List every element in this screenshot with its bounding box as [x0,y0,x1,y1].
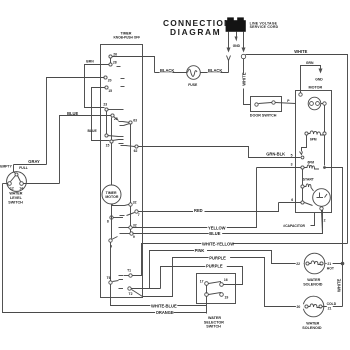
svg-text:5: 5 [291,153,293,157]
svg-text:PINK: PINK [195,248,205,253]
line voltage service cord plug [226,17,279,31]
wire BLUE timer 9 to capacitor 2 [133,210,323,237]
timer contact T1 [119,268,133,277]
svg-text:BLACK: BLACK [208,68,222,73]
wire BLUE water level to timer 25 [60,111,111,184]
wire WHITE-BLUE timer T6 to selector [111,285,207,309]
timer motor M [102,185,121,204]
svg-text:T2: T2 [129,292,133,296]
timer bus 63 down to 9 [130,124,132,234]
motor winding 1 [305,131,326,141]
svg-text:WHITE: WHITE [242,72,247,85]
label WHITE vertical [336,278,342,294]
svg-text:FULL: FULL [19,166,28,170]
svg-text:PURPLE: PURPLE [206,264,223,269]
svg-text:SOLENOID: SOLENOID [302,326,322,330]
wire PURPLE lower from T2 to selector 16 [161,264,243,289]
timer bus 15b down to timer motor [111,143,113,186]
timer bus motor to T6 [111,205,112,281]
svg-text:SWITCH: SWITCH [8,200,23,204]
wire PINK timer T2 to hot solenoid 22 [132,248,305,288]
svg-text:DIAGRAM: DIAGRAM [170,27,221,37]
motor thermal protector [308,97,326,110]
water level switch S1 [0,165,28,205]
wire winding 2 to white riser [326,168,343,307]
svg-text:GND: GND [315,77,323,81]
svg-text:9: 9 [133,235,135,239]
timer contact T2 with arm [119,287,143,297]
svg-text:TIMER: TIMER [106,191,117,195]
timer contact 23 [103,102,123,111]
wire WHITE top run to right edge [246,49,348,243]
svg-text:12: 12 [10,187,14,191]
wire BRN from 28 to 23 [85,60,109,108]
svg-text:16: 16 [224,278,228,282]
ground GND plug center prong [233,32,241,49]
svg-text:WATER: WATER [307,278,320,282]
svg-text:KNOB-PUSH OFF: KNOB-PUSH OFF [114,35,141,39]
svg-text:20: 20 [108,78,112,82]
svg-text:2: 2 [324,218,326,222]
node: junction terminal under right prong [241,54,251,104]
motor switch 5 [300,136,307,159]
timer contact at 135 [105,134,124,137]
svg-text:BLUE: BLUE [67,111,78,116]
wire water level 14 to blue riser [24,183,60,185]
wire selector 17 bus [206,286,208,314]
timer contact 28 with arm to 26 [109,58,121,67]
timer contact 33 [119,223,137,229]
wire water level 12 to left edge [3,183,8,185]
wire motor 6 row [279,198,302,202]
timer switch 9 lower [109,237,118,249]
svg-text:HOT: HOT [327,267,335,271]
svg-text:21: 21 [328,307,332,311]
timer contact 25 with arm [111,114,130,123]
svg-text:8: 8 [107,219,109,223]
svg-text:COLD: COLD [327,302,337,306]
svg-text:GRN-BLK: GRN-BLK [266,151,285,156]
timer contact 20 [104,76,125,82]
svg-text:26: 26 [113,53,117,57]
timer contact 9 [120,232,135,239]
wire from timer 20 down left [47,78,105,165]
svg-text:GRAY: GRAY [28,159,40,164]
timer contact 62 with arm [121,145,139,153]
svg-text:FUSE: FUSE [188,83,198,87]
svg-text:22: 22 [296,262,300,266]
wire 15a jog to 15b [88,88,110,141]
svg-text:32: 32 [133,223,137,227]
svg-text:WHITE-BLUE: WHITE-BLUE [151,303,177,308]
svg-text:23: 23 [103,102,107,106]
svg-text:6PM: 6PM [308,161,315,165]
svg-text:SOLENOID: SOLENOID [303,283,323,287]
door switch S2 [250,97,282,118]
svg-text:WATER: WATER [208,316,221,320]
wire GRN motor ground [301,61,324,93]
wire: plug left prong drop with arrow [227,32,231,53]
svg-text:RED: RED [194,208,203,213]
label 3 at motor [257,163,302,168]
svg-text:21: 21 [327,262,331,266]
timer bus 25 down to 15 [111,118,113,140]
svg-text:BLUE: BLUE [88,129,98,133]
fuse F1 [187,66,201,87]
svg-text:SWITCH: SWITCH [206,325,221,329]
svg-text:ORANGE: ORANGE [156,310,174,315]
wire ORANGE water level to selector [3,184,207,316]
svg-text:MOTOR: MOTOR [105,195,118,199]
svg-text:WHITE: WHITE [336,279,341,292]
wire cold solenoid to white riser [323,306,343,308]
svg-text:15: 15 [108,89,112,93]
timer switch 8 [107,216,123,224]
svg-text:T6: T6 [107,276,111,280]
svg-text:6PM: 6PM [310,137,317,141]
wire hot solenoid to white junction [326,262,345,266]
label capacitor [283,213,314,228]
wire BLACK left of fuse [155,68,187,73]
title CONNECTION DIAGRAM [163,18,231,37]
wire door switch to motor P [276,99,296,103]
svg-text:32: 32 [133,201,137,205]
timer contact 15 lower [106,140,124,148]
svg-text:PURPLE: PURPLE [209,256,226,261]
motor box [296,86,332,213]
svg-text:LEVEL: LEVEL [10,196,23,200]
svg-text:SELECTOR: SELECTOR [204,320,224,324]
wire YELLOW timer 32 to motor 3 [133,168,257,231]
wire: plug right prong drop with arrow [242,32,246,53]
wire WHITE-YELLOW timer T1 to white line [133,241,348,275]
timer contact T6 with arm [107,276,123,284]
wire protector to winding 1 [324,106,326,166]
svg-text:19: 19 [225,296,229,300]
wire winding2-start bus [302,169,304,201]
timer contact 15 upper [105,86,125,93]
wire PURPLE upper from T2 arm to cold solenoid 20 [143,256,304,307]
timer contact 32 upper [129,201,137,207]
svg-text:15: 15 [106,143,110,147]
timer contact 63 with arm [120,119,138,126]
wire RED timer 7 to motor 6 [139,203,279,214]
svg-text:63: 63 [133,119,137,123]
svg-text:3: 3 [291,163,293,167]
motor switch 6 [301,201,313,206]
timer bus 23 down [106,111,108,134]
svg-text:T1: T1 [127,268,131,272]
svg-text:20: 20 [297,305,301,309]
wire from timer contact 26 to fuse [113,57,155,73]
svg-text:BLACK: BLACK [160,68,174,73]
svg-text:MOTOR: MOTOR [309,86,323,90]
svg-text:6: 6 [291,198,293,202]
water selector switch S3 [197,274,236,329]
svg-text:START: START [303,178,315,182]
water solenoid hot [296,253,335,286]
svg-text:GRN: GRN [306,61,314,65]
motor winding 2 [301,161,326,170]
svg-text:WATER: WATER [9,192,22,196]
svg-text:DOOR SWITCH: DOOR SWITCH [250,113,277,117]
wire GRAY to water level switch [14,159,47,174]
svg-text:28: 28 [113,60,117,64]
motor centrifugal capacitor circle [313,189,331,207]
wire selector 16 right [224,284,243,286]
svg-text:BLUE: BLUE [209,231,220,236]
svg-text:7: 7 [138,213,140,217]
connector Y below left prong [227,56,231,73]
svg-text:BRN: BRN [86,60,94,64]
svg-text:YELLOW: YELLOW [208,225,226,230]
capacitor terminal 2 [320,207,326,234]
svg-text:GND: GND [233,44,241,48]
svg-text:EMPTY: EMPTY [0,165,12,169]
motor terminal top left [299,93,302,96]
svg-text:WHITE-YELLOW: WHITE-YELLOW [202,241,234,246]
motor start winding [301,178,315,191]
svg-text:17: 17 [200,279,204,283]
svg-text:WHITE: WHITE [294,49,307,54]
wire timer motor bottom to 32a [113,205,129,206]
wire BLACK right of fuse [201,68,229,73]
svg-text:14: 14 [19,187,23,191]
timer contact 7 [120,210,140,217]
wire GRN-BLK timer 62 to motor 5 [139,147,301,158]
svg-text:62: 62 [134,149,138,153]
timer box [101,31,143,297]
svg-text:#CAPACITOR: #CAPACITOR [283,224,305,228]
svg-text:WATER: WATER [306,322,319,326]
water solenoid cold [296,296,337,330]
svg-text:SERVICE CORD: SERVICE CORD [250,25,279,29]
timer contact 26 [109,53,117,59]
